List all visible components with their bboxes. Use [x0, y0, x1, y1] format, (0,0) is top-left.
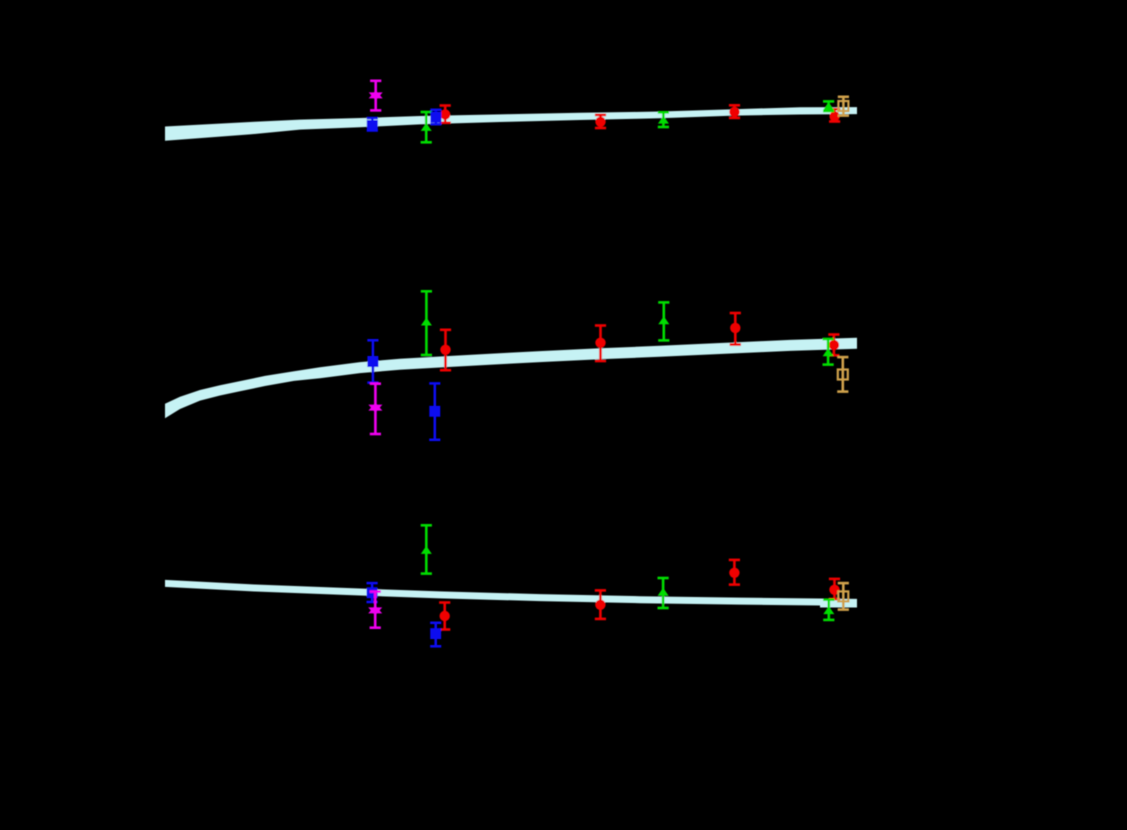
- bot red point B4: [439, 601, 450, 631]
- top blue square T4: [430, 109, 441, 126]
- mid orange open square M11: [837, 356, 848, 393]
- bot green triangle B7: [658, 577, 669, 610]
- bottom theory band: [165, 580, 857, 608]
- top red point T11: [829, 108, 840, 123]
- bot green triangle B1: [421, 524, 432, 575]
- middle theory band: [165, 338, 857, 418]
- bot red point B9: [829, 578, 840, 601]
- mid green triangle M3: [421, 290, 432, 356]
- mid blue square M5: [429, 382, 440, 441]
- bot blue square B5: [430, 622, 441, 648]
- mid red point M9: [828, 333, 839, 356]
- top red point T8: [729, 104, 740, 119]
- bot magenta star B3: [368, 590, 382, 629]
- top red point T6: [595, 114, 606, 130]
- top magenta star T1: [369, 80, 383, 112]
- mid red point M8: [730, 312, 741, 346]
- top green triangle T9: [823, 100, 834, 112]
- bot red point B6: [595, 589, 606, 620]
- bot orange open square B10: [838, 582, 849, 611]
- bot red point B8: [729, 559, 740, 586]
- top orange open square T10: [838, 96, 849, 117]
- mid red point M4: [440, 329, 451, 372]
- mid green triangle M7: [658, 301, 669, 342]
- mid red point M6: [595, 324, 606, 362]
- mid magenta star M2: [368, 382, 382, 435]
- top red point T5: [440, 104, 451, 124]
- mid green triangle M10: [823, 338, 834, 366]
- top green triangle T3: [421, 111, 432, 144]
- mid blue square M1: [367, 339, 378, 384]
- top blue square T2: [367, 117, 378, 132]
- top theory band: [165, 107, 857, 141]
- bot green triangle B11: [823, 598, 834, 621]
- bot blue square B2: [367, 582, 378, 604]
- top green triangle T7: [658, 111, 669, 128]
